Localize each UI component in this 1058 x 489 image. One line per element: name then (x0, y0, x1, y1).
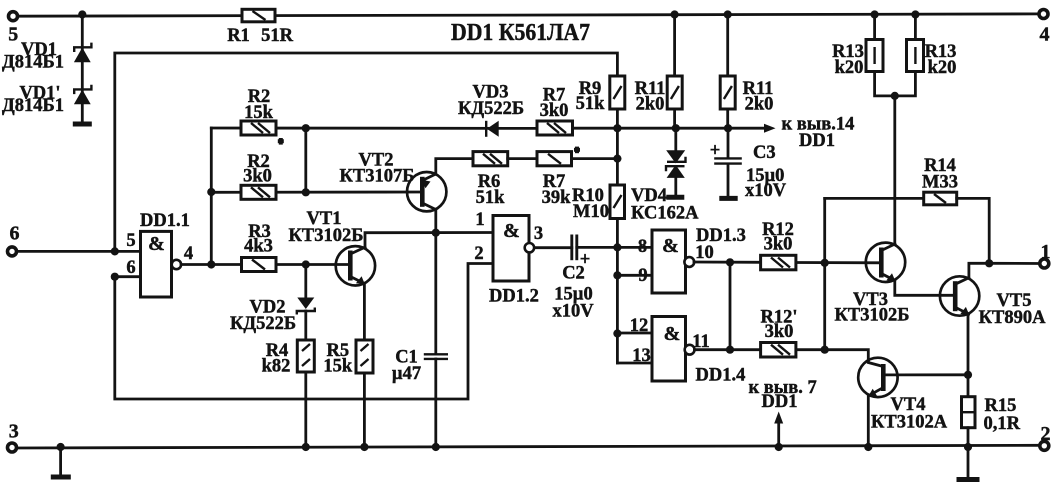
wire R13a column (873, 15, 876, 41)
arrow to pin 14 DD1 (764, 124, 776, 133)
svg-text:DD1: DD1 (799, 131, 835, 151)
op-gate DD1.1 (126, 211, 193, 297)
svg-text:5: 5 (8, 24, 18, 46)
svg-text:&: & (662, 235, 679, 257)
wire R10 bottom down to DD1.4 pins (616, 219, 619, 364)
capacitor C1 µ47 (392, 233, 448, 447)
resistor R7 39k (537, 152, 572, 208)
transistor VT3 КТ3102Б (835, 243, 910, 326)
resistor R6 51k (473, 152, 508, 208)
wire R4 to ground rail (304, 372, 307, 447)
wire pin13 stub (617, 362, 652, 365)
svg-text:M33: M33 (922, 173, 958, 193)
svg-text:3k0: 3k0 (764, 235, 793, 255)
node VT1 base / VD2 (302, 260, 310, 268)
svg-text:3: 3 (534, 224, 543, 244)
svg-text:C3: C3 (753, 143, 776, 163)
svg-text:x10V: x10V (552, 302, 594, 322)
svg-text:3: 3 (9, 420, 19, 442)
svg-text:9: 9 (638, 266, 647, 286)
wire output to terminal 1 (989, 262, 1040, 265)
wire VT3 collector column (893, 96, 896, 244)
wire R13 pair bottoms joined (875, 72, 916, 96)
diode VD2 КД522Б (230, 298, 315, 335)
svg-text:12: 12 (630, 316, 649, 336)
svg-text:DD1.4: DD1.4 (696, 366, 746, 386)
wire R15 column top (967, 375, 970, 397)
node pin7 arrow on rail (775, 443, 783, 451)
resistor R10 M10 (572, 185, 625, 222)
op-gate DD1.2 (474, 210, 543, 307)
svg-text:3k0: 3k0 (243, 167, 272, 187)
resistor R3 4k3 (242, 222, 277, 272)
zener VD1 Д814Б1 (2, 40, 91, 73)
svg-text:DD1 К561ЛА7: DD1 К561ЛА7 (451, 20, 590, 46)
wire R7 3k0 to pin14 arrow line (573, 127, 769, 130)
svg-text:Д814Б1: Д814Б1 (2, 96, 64, 116)
wire R12 to base node (796, 261, 881, 264)
terminal 3 (8, 420, 19, 452)
wire VT3 emitter to VT5 base (895, 281, 955, 296)
wire common base vertical (823, 198, 826, 349)
svg-text:k82: k82 (262, 357, 291, 377)
op-gate DD1.4 (630, 316, 746, 386)
svg-text:&: & (148, 233, 165, 255)
svg-text:6: 6 (10, 222, 20, 244)
wire pin6 stub (115, 275, 141, 278)
ground right (957, 447, 980, 480)
svg-text:0,1R: 0,1R (984, 414, 1021, 434)
svg-text:x10V: x10V (745, 181, 787, 201)
resistor R13 k20 second (907, 40, 957, 79)
wire DD1.4 output to R12' (695, 348, 761, 351)
node R13a rail (871, 10, 879, 18)
svg-text:4k3: 4k3 (244, 237, 273, 257)
terminal 1 (1040, 241, 1051, 268)
wire R15 to rail (967, 428, 970, 447)
wire DD1.2 output to C2 (535, 246, 572, 249)
node C1 bottom (432, 443, 440, 451)
wire pin9 stub (617, 274, 652, 277)
resistor R15 0,1R (962, 396, 1021, 434)
wire R5 to ground rail (363, 373, 366, 447)
svg-text:КД522Б: КД522Б (458, 99, 524, 119)
node R13b rail (911, 10, 919, 18)
svg-text:КД522Б: КД522Б (230, 314, 296, 334)
svg-text:39k: 39k (542, 188, 572, 208)
node pin9 (613, 271, 621, 279)
transistor VT1 КТ3102Б (289, 209, 376, 286)
svg-text:k20: k20 (928, 58, 957, 78)
wire R14 line left (825, 197, 924, 200)
svg-text:5: 5 (126, 231, 135, 251)
node R15 rail (964, 443, 972, 451)
wire R14 right down to output (957, 198, 990, 263)
svg-text:13: 13 (632, 346, 651, 366)
zener VD1' Д814Б1 (2, 84, 91, 117)
node R11b rail (724, 10, 732, 18)
svg-text:КТ3102Б: КТ3102Б (835, 306, 910, 326)
node pin12 (613, 329, 621, 337)
svg-text:КТ3102А: КТ3102А (871, 413, 948, 433)
node R2 15k right column top (302, 124, 310, 132)
wire C2 to DD1.3 pin8 (577, 246, 652, 249)
wire VD2 column (304, 265, 307, 298)
wire R2 3k0 line (211, 191, 422, 194)
resistor R9 51k (576, 76, 625, 114)
wire VT4 collector to R15 column (898, 373, 969, 376)
node gate outputs link top (726, 258, 734, 266)
resistor R12 3k0 (761, 220, 796, 270)
op-gate DD1.3 (638, 226, 746, 293)
resistor R11 2k0 second (720, 76, 773, 115)
svg-text:КТ3107Б: КТ3107Б (340, 167, 415, 187)
wire VT2 collector down (434, 210, 437, 233)
svg-text:2: 2 (474, 244, 483, 264)
wire VT1 collector up to line (365, 233, 493, 248)
resistor R2 3k0 (241, 152, 276, 199)
svg-text:DD1: DD1 (762, 392, 798, 412)
svg-text:DD1.2: DD1.2 (489, 287, 539, 307)
svg-text:8: 8 (638, 237, 647, 257)
svg-text:КС162А: КС162А (631, 204, 699, 224)
node pin6 (111, 273, 119, 281)
terminal 6 (8, 222, 20, 256)
node R5 bottom (360, 443, 368, 451)
resistor R14 M33 (922, 156, 958, 205)
svg-text:КТ890А: КТ890А (979, 308, 1047, 328)
resistor R7 3k0 (537, 86, 573, 136)
svg-text:M10: M10 (573, 202, 609, 222)
terminal 2 (1040, 423, 1051, 450)
node R9/R10 on pin14 line (613, 124, 621, 132)
node C3 top (724, 124, 732, 132)
svg-text:3k0: 3k0 (765, 322, 794, 342)
wire VT4 emitter down (867, 396, 870, 448)
resistor R11 2k0 first (635, 76, 683, 115)
svg-text:1: 1 (475, 210, 484, 230)
svg-text:1: 1 (1041, 241, 1051, 263)
node R2 3k0 line (207, 188, 215, 196)
wire main vertical x617 (616, 128, 619, 185)
svg-text:&: & (503, 220, 520, 242)
node VD4 top (672, 124, 680, 132)
svg-text:R1: R1 (227, 26, 250, 46)
svg-text:15k: 15k (323, 357, 353, 377)
wire R13b column (914, 15, 917, 41)
svg-text:µ47: µ47 (392, 364, 421, 384)
wire VT1 emitter to R5 (363, 284, 366, 341)
mark selected value star R7 (574, 147, 580, 154)
resistor R1 51R (227, 9, 293, 46)
resistor R12' 3k0 (761, 308, 798, 358)
wire bottom ground rail (12, 445, 1040, 448)
node base node top (821, 259, 829, 267)
transistor VT4 КТ3102А (858, 358, 947, 433)
terminal 4 (1039, 10, 1050, 46)
node C2 line / vertical (613, 243, 621, 251)
resistor R13 k20 first (832, 40, 883, 79)
wire R11a column (673, 15, 676, 129)
mark selected value star R2 (278, 138, 284, 145)
wire R3 line output to VT1 base (242, 263, 351, 266)
wire DD1.3 output to R12 (694, 261, 761, 264)
wire vertical x211 (210, 128, 213, 265)
node output / R14 (985, 259, 993, 267)
svg-text:4: 4 (184, 244, 193, 264)
wire R6 to R7 39k (508, 157, 537, 160)
node VT4 collector (964, 371, 972, 379)
node R2 3k0 right (302, 188, 310, 196)
wire terminal6 to DD1.1 pin5 (17, 250, 141, 253)
svg-text:51k: 51k (476, 188, 506, 208)
wire VD1 column (81, 15, 84, 123)
ground left (51, 447, 71, 477)
svg-text:+: + (710, 141, 721, 161)
wire VT5 collector to output line (969, 263, 989, 277)
svg-text:2: 2 (1041, 423, 1051, 445)
svg-text:&: & (664, 323, 681, 345)
node R13 mid (891, 92, 899, 100)
wire top supply rail (13, 14, 1043, 16)
node output/vertical (207, 260, 215, 268)
svg-text:2k0: 2k0 (745, 95, 774, 115)
wire R2 15k line (211, 127, 537, 130)
arrow to pin 7 DD1 (749, 378, 817, 447)
node R7 39k / vertical (613, 155, 621, 163)
terminal 5 (8, 12, 18, 46)
node R11a rail (671, 10, 679, 18)
svg-text:4: 4 (1040, 24, 1050, 46)
resistor R5 15k (323, 340, 373, 377)
wire pin12 stub (617, 332, 652, 335)
zener VD4 КС162А bidirectional (631, 128, 699, 223)
wire VT5 emitter down (967, 314, 970, 375)
svg-text:10: 10 (695, 243, 714, 263)
rail end bar below VD1' (73, 122, 92, 127)
svg-text:C2: C2 (562, 264, 585, 284)
node base node bottom (821, 346, 829, 354)
transistor VT2 КТ3107Б (340, 151, 447, 212)
capacitor C2 15µ0 x10V (552, 235, 594, 322)
resistor R2 15k (241, 87, 276, 135)
svg-text:15k: 15k (244, 103, 274, 123)
svg-text:R15: R15 (985, 396, 1017, 416)
node ground left (57, 443, 65, 451)
wire VT2 emitter up to R6 line (436, 159, 473, 174)
svg-text:DD1.1: DD1.1 (140, 211, 190, 231)
transistor VT5 КТ890А (940, 276, 1046, 328)
node gate outputs link bottom (726, 346, 734, 354)
node R4 bottom (302, 443, 310, 451)
node VT4 emitter rail (864, 443, 872, 451)
node top rail / VD1 junction (78, 10, 86, 18)
wire linking outputs (729, 262, 732, 349)
wire R7 39k to vertical (572, 157, 618, 160)
wire R12' to VT4 base (796, 350, 868, 362)
svg-text:DD1.3: DD1.3 (696, 226, 746, 246)
wire R9 bottom to line (616, 109, 619, 128)
wire left feedback down and across bottom (115, 264, 493, 400)
resistor R4 k82 (262, 340, 315, 377)
svg-text:k20: k20 (835, 58, 864, 78)
svg-text:51R: 51R (261, 26, 294, 46)
node VT2 collector / C1 top (432, 229, 440, 237)
capacitor C3 15µ0 x10V (710, 128, 787, 201)
node vertical/pin5 (111, 247, 119, 255)
svg-text:6: 6 (126, 258, 135, 278)
svg-text:51k: 51k (576, 94, 606, 114)
wire second rail y53 from left corner to R9 (115, 53, 618, 251)
wire DD1.1 output to R3 (181, 263, 241, 266)
svg-text:КТ3102Б: КТ3102Б (289, 226, 364, 246)
svg-text:Д814Б1: Д814Б1 (2, 53, 64, 73)
wire VD2 to R4 (304, 311, 307, 340)
wire column x305 (304, 128, 307, 192)
diode VD3 КД522Б (458, 83, 524, 137)
svg-text:3k0: 3k0 (540, 101, 569, 121)
svg-text:2k0: 2k0 (636, 95, 665, 115)
wire R11b column (726, 15, 729, 129)
